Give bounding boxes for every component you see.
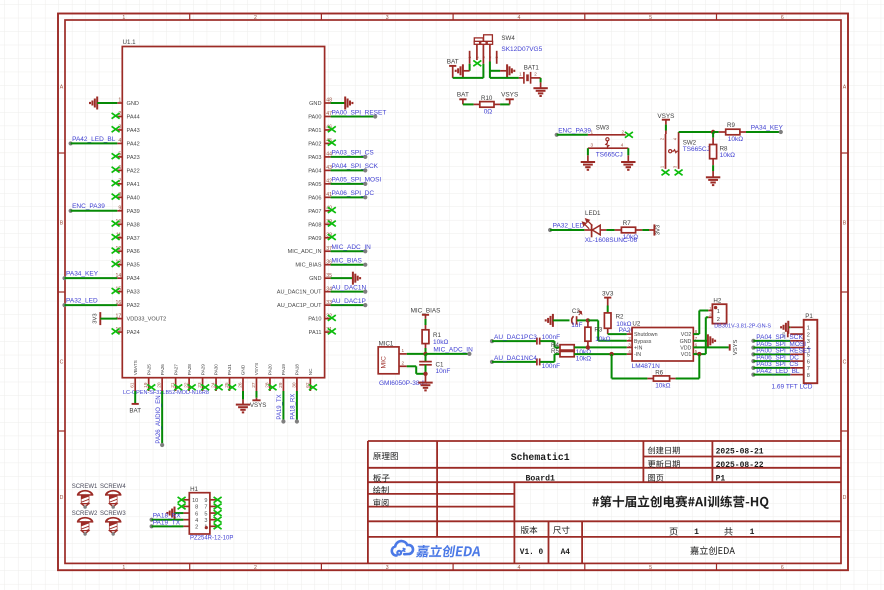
U1 pin 23 PA29 xyxy=(197,364,205,391)
SW3 pin3 to ground xyxy=(587,148,589,162)
svg-text:PA00: PA00 xyxy=(308,114,321,120)
ground at P1 pin1 xyxy=(781,321,790,334)
title created date xyxy=(716,447,764,456)
svg-text:VDD: VDD xyxy=(680,345,691,351)
no-connect X pin 8 xyxy=(112,194,120,200)
svg-text:10kΩ: 10kΩ xyxy=(720,152,735,159)
svg-text:1: 1 xyxy=(122,565,125,571)
net PA04_SPI_SCK xyxy=(331,163,379,172)
svg-text:AU_DAC1P_OUT: AU_DAC1P_OUT xyxy=(277,303,322,309)
svg-text:PA32: PA32 xyxy=(127,303,140,309)
U1 pin 1 GND xyxy=(117,98,139,107)
wire R5 to -IN xyxy=(574,353,627,355)
svg-text:BAT: BAT xyxy=(447,59,459,66)
SW4 case pin left xyxy=(469,51,471,71)
U1 pin 28 PA20 xyxy=(264,364,272,391)
net PA18_RX (H1) xyxy=(150,513,184,522)
svg-text:6: 6 xyxy=(807,359,810,365)
svg-text:PA26: PA26 xyxy=(160,364,165,376)
resistor R1 xyxy=(422,330,448,346)
svg-text:PA05: PA05 xyxy=(308,182,321,188)
net PA00_SPI_RESET (P1) xyxy=(751,348,811,357)
svg-text:3: 3 xyxy=(204,518,207,524)
wire BAT-R10 xyxy=(463,103,480,105)
ground at BAT1 xyxy=(533,88,547,96)
svg-text:1: 1 xyxy=(402,348,405,353)
no-connect X pin 25 xyxy=(228,384,236,390)
svg-text:PA22: PA22 xyxy=(127,168,140,174)
resistor R5 xyxy=(551,348,591,362)
svg-text:3V3: 3V3 xyxy=(93,313,99,323)
svg-text:PA43: PA43 xyxy=(127,128,140,134)
svg-text:PA28: PA28 xyxy=(187,364,192,376)
svg-text:ENC_PA39: ENC_PA39 xyxy=(558,127,591,134)
svg-text:0Ω: 0Ω xyxy=(484,109,493,116)
svg-text:D: D xyxy=(843,495,847,501)
wire C2 to bypass net xyxy=(577,319,588,321)
svg-text:4: 4 xyxy=(621,143,624,148)
junction -IN/R6 xyxy=(609,352,613,356)
title 板子 xyxy=(373,474,390,482)
net PA03_SPI_CS (P1) xyxy=(751,361,799,370)
wire junction-R8 xyxy=(712,132,714,144)
screw SCREW1 xyxy=(72,484,98,509)
U1 pin 30 PA18 xyxy=(291,364,299,391)
svg-text:PA04: PA04 xyxy=(308,168,321,174)
svg-text:AU_DAC1N: AU_DAC1N xyxy=(332,284,367,291)
svg-text:PA42: PA42 xyxy=(127,141,140,147)
svg-text:2: 2 xyxy=(628,336,631,341)
no-connect X SW2 pin1 xyxy=(662,170,670,176)
svg-text:PA05_SPI_MOSI: PA05_SPI_MOSI xyxy=(332,177,382,184)
title version xyxy=(520,549,544,557)
U1 pin 27 VSYS xyxy=(251,363,259,391)
module U1.1 body xyxy=(122,39,324,378)
U1 pin 7 PA41 xyxy=(117,179,139,188)
svg-text:GND: GND xyxy=(241,364,246,375)
svg-text:PA30: PA30 xyxy=(214,364,219,376)
svg-text:1: 1 xyxy=(750,528,755,537)
resistor R4 xyxy=(551,342,591,356)
svg-text:MIC_BIAS: MIC_BIAS xyxy=(411,308,441,315)
U1 pin 45 PA02 xyxy=(308,138,332,147)
title block grid xyxy=(368,441,841,563)
svg-text:R2: R2 xyxy=(616,314,624,321)
svg-text:PA19: PA19 xyxy=(281,364,286,376)
connector H2 xyxy=(708,298,726,324)
net AU_DAC1N (amp) xyxy=(490,355,536,364)
svg-text:VO1: VO1 xyxy=(681,352,692,358)
switch SW2 body xyxy=(660,132,679,169)
title 图页 xyxy=(648,474,663,481)
svg-text:8: 8 xyxy=(195,505,198,511)
net PA00_SPI_RESET xyxy=(331,109,387,118)
svg-text:PA11: PA11 xyxy=(309,330,322,336)
U1 pin 39 PA08 xyxy=(308,219,332,228)
battery BAT1 xyxy=(519,65,541,84)
net PA06_SPI_DC (P1) xyxy=(751,354,799,363)
net MIC_ADC_IN xyxy=(331,244,372,253)
svg-text:BAT: BAT xyxy=(129,407,141,414)
ground at U1 pin1 xyxy=(90,97,117,110)
svg-text:4: 4 xyxy=(517,15,520,21)
svg-text:VSYS: VSYS xyxy=(250,402,267,409)
P1 pin 1 xyxy=(790,326,810,332)
svg-text:U1.1: U1.1 xyxy=(123,39,137,46)
title 审阅 xyxy=(373,499,388,507)
svg-text:PA44: PA44 xyxy=(127,114,140,120)
svg-text:2: 2 xyxy=(807,332,810,338)
svg-text:PA32_LED: PA32_LED xyxy=(66,298,98,305)
screw SCREW4 xyxy=(100,484,126,509)
svg-text:3: 3 xyxy=(807,339,810,345)
power 3V3 at P1 pin2 xyxy=(782,331,788,338)
no-connect X H1 pin 8 xyxy=(178,504,186,510)
microphone MIC1 labels xyxy=(379,340,427,387)
U1 pin 44 PA03 xyxy=(308,152,332,161)
svg-text:C4: C4 xyxy=(529,355,538,362)
ground at R8 xyxy=(706,177,720,185)
svg-text:VSYS: VSYS xyxy=(501,92,518,99)
U1 pin 26 GND xyxy=(237,364,245,391)
svg-text:1: 1 xyxy=(519,71,522,76)
title 尺寸 xyxy=(553,526,569,534)
net PA04_SPI_SCK (P1) xyxy=(751,334,803,343)
U1 pin 31 PA11 xyxy=(309,327,333,336)
svg-text:SCREW4: SCREW4 xyxy=(100,484,126,490)
U1 pin 21 PA27 xyxy=(170,364,178,391)
title 更新日期 xyxy=(648,460,680,468)
svg-text:PA10: PA10 xyxy=(308,317,321,323)
no-connect X SW3 pin2 xyxy=(625,132,633,138)
power flag BAT at pin61 xyxy=(129,391,141,414)
H1 pins 4/3 xyxy=(183,518,216,524)
resistor R6 xyxy=(653,370,670,390)
svg-text:7: 7 xyxy=(807,366,810,372)
ground at C2 xyxy=(546,314,553,327)
svg-text:A: A xyxy=(843,85,847,91)
ground at U1 pin26 xyxy=(236,391,250,412)
power flag VSYS (SW2) xyxy=(657,113,674,134)
power 3V3 (R2) xyxy=(602,290,614,313)
svg-text:BAT1: BAT1 xyxy=(524,65,540,72)
svg-text:GND: GND xyxy=(127,101,139,107)
svg-text:4: 4 xyxy=(628,349,631,354)
svg-text:MIC_ADC_IN: MIC_ADC_IN xyxy=(433,347,473,354)
no-connect X pin 19 xyxy=(147,384,155,390)
svg-text:6: 6 xyxy=(781,15,784,21)
svg-text:7: 7 xyxy=(204,505,207,511)
U1 pin 33 AU_DAC1P_OUT xyxy=(277,300,332,309)
power 3V3 at VDD33_VOUT2 xyxy=(93,312,118,325)
U1 pin 11 PA37 xyxy=(116,232,140,241)
wire R2-shutdown xyxy=(608,328,627,334)
net PA42_LED_BL xyxy=(69,136,118,146)
U1 pin 40 PA07 xyxy=(308,206,332,215)
power VSYS at U2 VDD xyxy=(693,340,739,356)
svg-text:10kΩ: 10kΩ xyxy=(655,383,670,390)
microphone MIC1 xyxy=(378,347,407,374)
svg-text:V1. 0: V1. 0 xyxy=(520,549,544,557)
svg-text:+IN: +IN xyxy=(634,345,643,351)
title 绘制 xyxy=(373,486,389,494)
svg-text:P1: P1 xyxy=(716,475,726,484)
wire BAT1 to ground xyxy=(540,78,542,88)
U1 pin 2 PA44 xyxy=(117,111,139,120)
wire junction-R9 xyxy=(713,131,726,133)
power flag VSYS (R10) xyxy=(501,92,518,105)
svg-text:PA06: PA06 xyxy=(308,195,321,201)
svg-text:1: 1 xyxy=(122,15,125,21)
wire R10-VSYS xyxy=(494,103,510,105)
svg-text:MIC_ADC_IN: MIC_ADC_IN xyxy=(288,249,322,255)
part number U1 xyxy=(123,390,209,396)
wire to mic ground xyxy=(425,374,427,382)
no-connect X pin 40 xyxy=(328,207,336,213)
svg-text:10: 10 xyxy=(192,498,198,504)
svg-text:4: 4 xyxy=(195,518,198,524)
svg-text:2: 2 xyxy=(622,129,625,134)
P1 pin 5 xyxy=(790,353,810,359)
wire MIC1 pin1 to junction xyxy=(407,353,426,355)
svg-text:PA01: PA01 xyxy=(308,128,321,134)
P1 pin 4 xyxy=(790,346,810,352)
wire C3-R4 xyxy=(540,341,560,347)
SW3 pin4 to ground xyxy=(627,148,629,162)
svg-text:GND: GND xyxy=(309,276,321,282)
net label PA26_AUDIO_EN (amp) xyxy=(619,327,672,334)
resistor R10 xyxy=(480,95,494,115)
svg-text:3: 3 xyxy=(386,565,389,571)
logo 嘉立创EDA text xyxy=(416,545,482,558)
wire R4 to +IN xyxy=(574,346,627,348)
svg-text:PA19_TX: PA19_TX xyxy=(153,519,181,526)
U1 pin 22 PA28 xyxy=(184,364,192,391)
svg-text:3: 3 xyxy=(591,143,594,148)
svg-text:PA38: PA38 xyxy=(127,222,140,228)
P1 pin 8 xyxy=(790,373,810,379)
svg-text:VO2: VO2 xyxy=(681,332,692,338)
svg-text:H2: H2 xyxy=(713,298,721,305)
no-connect X H1 pin 1 xyxy=(214,523,222,529)
U1 pin 16 PA32 xyxy=(116,300,140,309)
U1 pin 20 PA26 xyxy=(157,364,165,391)
svg-text:AU_DAC1P: AU_DAC1P xyxy=(332,298,366,305)
svg-text:1.69 TFT LCD: 1.69 TFT LCD xyxy=(772,383,813,390)
U1 pin 42 PA05 xyxy=(308,179,332,188)
svg-text:2: 2 xyxy=(717,317,720,323)
U1 pin 6 PA22 xyxy=(117,165,139,174)
svg-text:2: 2 xyxy=(254,565,257,571)
svg-text:C: C xyxy=(60,360,64,366)
svg-text:PA27: PA27 xyxy=(173,364,178,376)
svg-text:10kΩ: 10kΩ xyxy=(623,234,638,241)
P1 pin 7 xyxy=(790,366,810,372)
svg-text:PA40: PA40 xyxy=(127,195,140,201)
svg-text:PA34: PA34 xyxy=(127,276,140,282)
svg-text:PA09: PA09 xyxy=(308,236,321,242)
U1 pin 14 PA34 xyxy=(116,273,140,282)
svg-text:PA32_LED: PA32_LED xyxy=(553,222,585,229)
wire MIC1 pin2 xyxy=(407,366,426,374)
no-connect X pin 11 xyxy=(112,234,120,240)
svg-text:1: 1 xyxy=(807,326,810,332)
no-connect X pin 45 xyxy=(328,140,336,146)
svg-text:AU_DAC1P: AU_DAC1P xyxy=(494,334,528,341)
svg-text:PA23: PA23 xyxy=(127,155,140,161)
wire C1 to ground node xyxy=(425,365,427,374)
svg-text:10kΩ: 10kΩ xyxy=(728,136,743,143)
svg-text:PA41: PA41 xyxy=(127,182,140,188)
svg-text:5: 5 xyxy=(649,15,652,21)
title Board1 xyxy=(525,473,555,483)
title updated date xyxy=(716,461,764,470)
svg-text:SCREW1: SCREW1 xyxy=(72,484,98,490)
SW4 middle pin wire xyxy=(482,44,484,78)
svg-text:PA00_SPI_RESET: PA00_SPI_RESET xyxy=(332,109,387,116)
svg-text:3V3: 3V3 xyxy=(656,225,662,235)
title 创建日期 xyxy=(648,447,680,455)
svg-text:NC: NC xyxy=(308,368,313,375)
svg-text:R6: R6 xyxy=(655,370,663,377)
svg-text:3V3: 3V3 xyxy=(602,290,614,297)
svg-text:SCREW2: SCREW2 xyxy=(72,511,98,517)
U1 pin 9 PA39 xyxy=(117,206,139,215)
svg-text:PA18: PA18 xyxy=(295,364,300,376)
net ENC_PA39 (left) xyxy=(69,203,118,213)
ground at U1 pin48 xyxy=(331,97,353,110)
U1 pin 43 PA04 xyxy=(308,165,332,174)
svg-text:1uF: 1uF xyxy=(571,322,582,329)
svg-text:PA08: PA08 xyxy=(308,222,321,228)
svg-text:PA34_KEY: PA34_KEY xyxy=(66,271,99,278)
svg-text:10nF: 10nF xyxy=(436,368,451,375)
U1 pin 36 MIC_BIAS xyxy=(295,259,332,268)
no-connect X pin 10 xyxy=(112,221,120,227)
U1 pin 47 PA00 xyxy=(308,111,332,120)
title 原理图 xyxy=(373,452,398,460)
wire SW2 to junction xyxy=(679,131,714,133)
svg-text:D: D xyxy=(60,495,64,501)
ground at H1 pin6 xyxy=(167,507,183,520)
svg-text:GND: GND xyxy=(309,101,321,107)
svg-text:MIC: MIC xyxy=(381,356,388,369)
svg-text:R9: R9 xyxy=(727,122,735,129)
resistor R9 xyxy=(726,122,744,143)
resistor R3 xyxy=(585,320,611,347)
LED LED1 labels xyxy=(585,210,638,244)
no-connect X pin 23 xyxy=(201,384,209,390)
H1 pins 10/9 xyxy=(183,498,216,504)
junction SW2/R8/R9 xyxy=(711,130,715,134)
no-connect X SW4 pin xyxy=(473,60,481,66)
no-connect X pin 5 xyxy=(112,153,120,159)
junction MIC_ADC node xyxy=(423,352,427,356)
svg-text:1: 1 xyxy=(694,528,699,537)
title slogan xyxy=(592,495,768,508)
svg-text:PA34_KEY: PA34_KEY xyxy=(751,125,784,132)
part number U2 xyxy=(632,363,660,370)
svg-text:R7: R7 xyxy=(623,220,631,227)
U1 pin 62 NC xyxy=(305,368,313,391)
net PA18_RX wire xyxy=(291,391,299,424)
U1 pin 15 PA33 xyxy=(116,286,140,295)
ground at U1 pin35 xyxy=(331,272,361,285)
svg-text:PA26_AUDIO_EN: PA26_AUDIO_EN xyxy=(156,395,162,443)
svg-text:2: 2 xyxy=(534,71,537,76)
svg-text:A: A xyxy=(60,85,64,91)
net AU_DAC1N xyxy=(331,284,368,293)
H1 pin1 marker xyxy=(205,526,208,529)
svg-text:GND: GND xyxy=(680,339,692,345)
no-connect X pin 6 xyxy=(112,167,120,173)
svg-text:P1: P1 xyxy=(805,313,813,320)
svg-text:R3: R3 xyxy=(594,327,602,334)
power flag VSYS at pin27 xyxy=(250,391,267,409)
svg-text:PA37: PA37 xyxy=(127,236,140,242)
wire R8 to ground xyxy=(712,159,714,177)
ground at SW3 pin3 xyxy=(581,162,595,170)
title 版本 xyxy=(521,526,538,534)
part number H1 xyxy=(190,536,233,542)
switch SW4 body xyxy=(468,35,499,59)
svg-text:Bypass: Bypass xyxy=(634,339,652,345)
U1 pin 29 PA19 xyxy=(278,364,286,391)
svg-text:PA31: PA31 xyxy=(227,364,232,376)
svg-text:SK12D07VG5: SK12D07VG5 xyxy=(501,46,542,53)
svg-text:PA33: PA33 xyxy=(127,290,140,296)
H1 pins 6/5 xyxy=(183,511,216,517)
wire gnd-C2 xyxy=(553,319,570,321)
no-connect X pin 18 xyxy=(112,328,120,334)
net PA32_LED (left) xyxy=(62,298,117,308)
U1 pin 19 PA25 xyxy=(143,364,151,391)
svg-text:VBATS: VBATS xyxy=(133,360,138,375)
svg-text:R10: R10 xyxy=(481,95,493,102)
svg-text:1: 1 xyxy=(591,129,594,134)
svg-text:10kΩ: 10kΩ xyxy=(433,339,448,346)
net AU_DAC1P xyxy=(331,298,368,307)
svg-text:5: 5 xyxy=(204,511,207,517)
capacitor C1 xyxy=(419,361,450,375)
svg-text:PA42_LED_BL: PA42_LED_BL xyxy=(756,368,800,375)
U1 pin 5 PA23 xyxy=(117,152,139,161)
U1 pin 17 VDD33_VOUT2 xyxy=(116,313,167,322)
net PA32_LED (LED1) xyxy=(548,222,585,232)
svg-text:5: 5 xyxy=(649,565,652,571)
U1 pin 46 PA01 xyxy=(308,125,332,134)
net ENC_PA39 (SW3) xyxy=(555,127,592,137)
net PA03_SPI_CS xyxy=(331,150,375,159)
svg-text:AU_DAC1N: AU_DAC1N xyxy=(494,355,529,362)
svg-text:VSYS: VSYS xyxy=(733,340,739,356)
no-connect X SW2 pin3 xyxy=(675,170,683,176)
op-amp U2 LM4871 xyxy=(627,321,699,361)
no-connect X pin 15 xyxy=(112,288,120,294)
power flag BAT (R10) xyxy=(457,92,469,105)
svg-text:B: B xyxy=(843,221,847,227)
U1 pin 61 VBATS xyxy=(130,360,138,391)
svg-text:1: 1 xyxy=(628,329,631,334)
no-connect X pin 13 xyxy=(112,261,120,267)
P1 pin 3 xyxy=(790,339,810,345)
svg-text:VDD33_VOUT2: VDD33_VOUT2 xyxy=(127,317,167,323)
H1 pins 2/1 xyxy=(183,525,216,531)
svg-text:MIC_ADC_IN: MIC_ADC_IN xyxy=(332,244,372,251)
U1 pin 8 PA40 xyxy=(117,192,139,201)
no-connect X pin 21 xyxy=(174,384,182,390)
U1 pin 10 PA38 xyxy=(116,219,140,228)
